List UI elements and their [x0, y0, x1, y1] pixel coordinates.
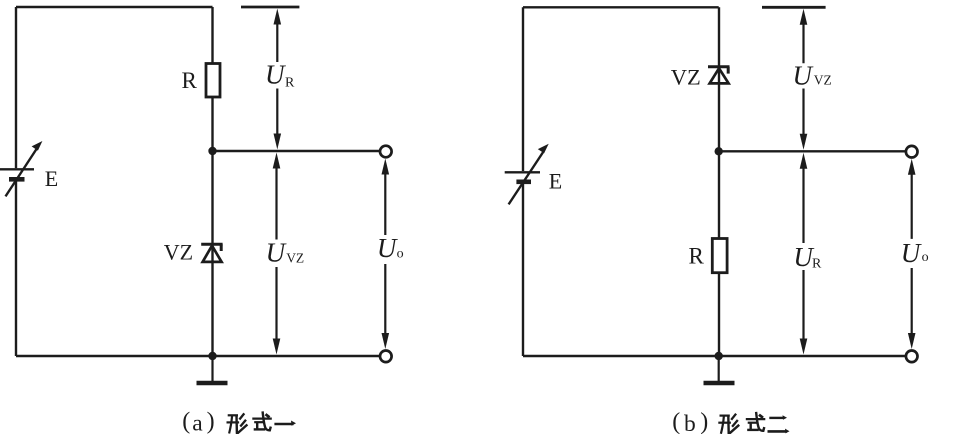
svg-text:U: U [793, 60, 814, 90]
svg-text:U: U [901, 238, 922, 268]
svg-text:): ) [207, 409, 215, 434]
svg-text:U: U [377, 233, 398, 263]
svg-text:o: o [922, 250, 929, 265]
svg-text:R: R [689, 244, 705, 269]
svg-text:): ) [700, 409, 708, 434]
svg-text:R: R [285, 75, 295, 90]
svg-text:E: E [549, 168, 562, 193]
svg-text:E: E [45, 166, 58, 191]
svg-text:VZ: VZ [814, 73, 832, 88]
svg-text:U: U [266, 238, 287, 268]
svg-text:VZ: VZ [286, 251, 304, 266]
svg-text:VZ: VZ [671, 64, 701, 89]
svg-text:R: R [812, 257, 822, 272]
svg-text:o: o [397, 246, 404, 261]
svg-text:VZ: VZ [164, 239, 193, 264]
svg-text:(: ( [182, 409, 190, 434]
svg-text:R: R [182, 68, 198, 93]
svg-text:U: U [265, 59, 286, 89]
svg-text:(: ( [672, 409, 680, 434]
svg-text:a: a [192, 411, 203, 434]
svg-text:b: b [684, 411, 696, 434]
